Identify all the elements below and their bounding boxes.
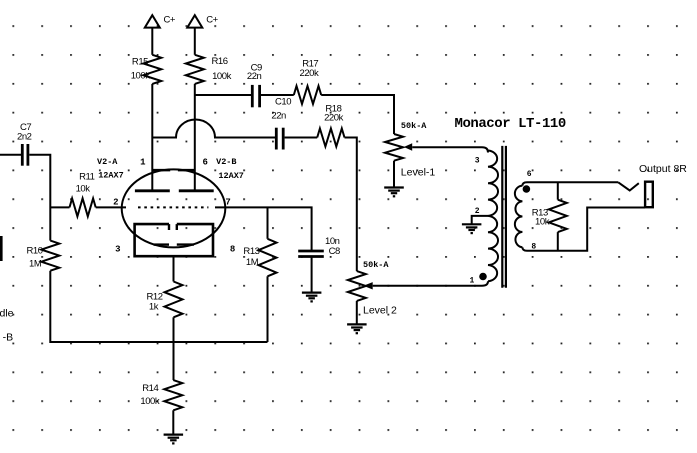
- svg-text:3: 3: [115, 245, 120, 255]
- svg-text:R10: R10: [27, 246, 43, 257]
- input jack fragment (left edge): [0, 236, 3, 261]
- svg-text:220k: 220k: [300, 68, 320, 79]
- wire cathodes to R12: [173, 256, 175, 281]
- capacitor C8 10n: [298, 250, 324, 253]
- wire R12 to rail: [173, 317, 175, 380]
- wire R15 to plate pin1: [151, 84, 153, 190]
- svg-text:2n2: 2n2: [17, 131, 32, 142]
- svg-text:Output 8R: Output 8R: [639, 163, 687, 175]
- svg-text:8: 8: [531, 242, 536, 251]
- svg-text:Level-1: Level-1: [401, 166, 436, 178]
- wiper arrow Level 2: [363, 282, 372, 289]
- svg-text:10k: 10k: [535, 217, 550, 228]
- svg-text:1: 1: [140, 158, 146, 168]
- svg-text:50k-A: 50k-A: [363, 260, 389, 270]
- svg-text:8: 8: [230, 245, 235, 255]
- svg-text:7: 7: [225, 197, 230, 207]
- wire Level-1 wiper to primary: [412, 147, 488, 152]
- transformer primary coil: [488, 151, 498, 282]
- wire R17 to Level-1 pot: [321, 95, 394, 134]
- capacitor C7 2n2: [21, 144, 24, 166]
- resistor R13 10k (secondary load): [557, 182, 559, 199]
- cathode dashes: [154, 243, 169, 245]
- resistor R16 100k: [186, 55, 204, 84]
- svg-text:100k: 100k: [140, 396, 160, 407]
- svg-text:12AX7: 12AX7: [218, 171, 244, 181]
- resistor R17 220k: [294, 86, 321, 104]
- ground Level-1: [384, 186, 404, 188]
- svg-text:R15: R15: [132, 57, 148, 68]
- grid tick V2-A: [152, 169, 170, 172]
- svg-text:2: 2: [475, 207, 480, 216]
- wire pot to ground: [393, 161, 395, 188]
- resistor R15 100k: [143, 55, 161, 84]
- wire R11 to pin2: [96, 206, 126, 208]
- capacitor C9 22n: [251, 85, 254, 107]
- jack body: [645, 182, 653, 208]
- svg-text:100k: 100k: [212, 71, 232, 82]
- ground primary pin2: [462, 223, 482, 225]
- svg-text:C10: C10: [275, 97, 291, 108]
- svg-text:22n: 22n: [271, 111, 286, 122]
- svg-text:1M: 1M: [246, 257, 259, 268]
- svg-text:50k-A: 50k-A: [401, 121, 427, 131]
- svg-text:220k: 220k: [324, 112, 344, 123]
- svg-text:1: 1: [470, 276, 475, 285]
- svg-text:R12: R12: [147, 291, 163, 302]
- plate bar V2-B: [179, 189, 214, 192]
- svg-text:Monacor LT-110: Monacor LT-110: [455, 116, 566, 132]
- svg-text:Middle: Middle: [0, 308, 14, 320]
- svg-text:C+: C+: [206, 14, 218, 25]
- capacitor C10 22n: [275, 128, 278, 150]
- resistor R13 1M: [267, 207, 269, 238]
- wire R18 to Level-2 pot: [345, 138, 357, 272]
- cathode box: [135, 224, 213, 256]
- svg-text:V2-B: V2-B: [216, 157, 236, 167]
- wire C+ right to R16: [194, 27, 196, 54]
- wire pin7 to C8: [215, 207, 312, 250]
- svg-text:10k: 10k: [76, 184, 91, 195]
- svg-text:2: 2: [113, 198, 118, 208]
- wire R16 to plate pin6: [194, 84, 196, 190]
- wire primary bottom to Level-2 wiper: [373, 281, 488, 286]
- wire R10 to -B rail: [50, 271, 267, 342]
- wire pot to ground: [356, 301, 358, 325]
- transformer secondary coil: [515, 186, 523, 247]
- jack tip contact: [618, 182, 639, 190]
- transformer core: [501, 146, 503, 288]
- primary pin 2 tap to ground: [472, 216, 488, 224]
- svg-text:C+: C+: [164, 14, 176, 25]
- phase dot primary pin1: [479, 273, 487, 281]
- wire secondary bottom to jack sleeve: [522, 208, 645, 251]
- svg-text:22n: 22n: [247, 71, 262, 82]
- ground C8: [302, 292, 322, 294]
- phase dot secondary pin6: [523, 185, 531, 193]
- grid dashed line: [138, 206, 208, 208]
- wire C8 to ground: [311, 258, 313, 293]
- grid tick V2-B: [178, 169, 195, 172]
- svg-text:3: 3: [475, 156, 480, 165]
- svg-text:1k: 1k: [149, 302, 159, 313]
- potentiometer 50k-A Level 2: [348, 271, 366, 301]
- resistor R14 100k: [164, 380, 182, 410]
- svg-text:1M: 1M: [29, 258, 42, 269]
- svg-text:C8: C8: [329, 246, 340, 257]
- wire C9 to R17: [261, 94, 294, 96]
- potentiometer 50k-A Level-1: [385, 134, 403, 161]
- svg-text:R16: R16: [212, 56, 228, 67]
- wire C10 to R18: [285, 137, 318, 139]
- wire secondary top to jack tip: [522, 182, 618, 186]
- tube V2 envelope: [122, 169, 226, 247]
- ground R14: [164, 434, 184, 436]
- svg-text:R14: R14: [142, 383, 158, 394]
- wiper arrow Level-1: [404, 143, 412, 150]
- wire R16 junction to C9: [195, 94, 251, 96]
- plate bar V2-A: [135, 189, 170, 192]
- resistor R10 1M: [41, 241, 59, 271]
- ground Level 2: [347, 323, 367, 325]
- svg-text:6: 6: [527, 170, 532, 179]
- resistor R18 220k: [317, 129, 344, 147]
- wire C7 to grid node: [29, 155, 50, 241]
- wire input to C7: [0, 154, 21, 156]
- resistor R11 10k: [50, 206, 69, 208]
- svg-text:12AX7: 12AX7: [98, 171, 124, 181]
- wire C+ left to R15: [151, 27, 153, 54]
- svg-text:100k: 100k: [131, 71, 151, 82]
- svg-text:Level 2: Level 2: [363, 304, 397, 316]
- svg-text:R11: R11: [79, 172, 95, 183]
- wire R14 to ground: [172, 410, 174, 434]
- wire plate pin1 to C10 with hop over R16 line: [152, 120, 275, 138]
- svg-text:V2-A: V2-A: [97, 157, 118, 167]
- power symbol C+ (left): [145, 15, 160, 27]
- resistor R12 1k: [165, 282, 183, 318]
- power symbol C+ (right): [187, 15, 202, 27]
- svg-text:6: 6: [203, 158, 208, 168]
- svg-text:R13: R13: [243, 246, 259, 257]
- svg-text:-B: -B: [3, 332, 14, 344]
